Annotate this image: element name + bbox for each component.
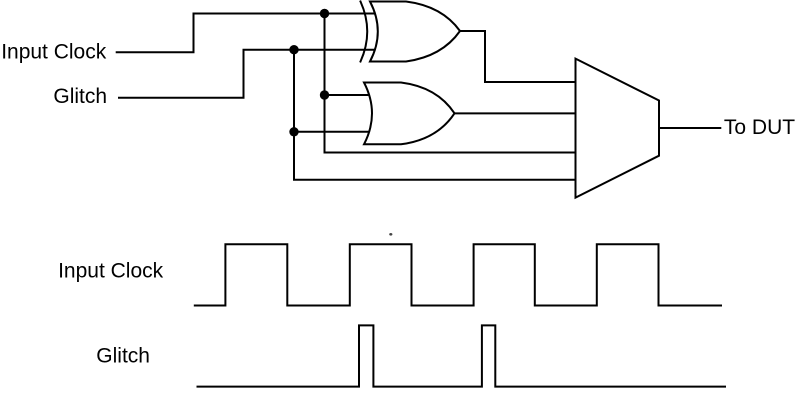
svg-text:Input Clock: Input Clock [58,260,164,283]
svg-text:To DUT: To DUT [724,116,795,139]
svg-text:Glitch: Glitch [53,85,107,108]
svg-text:Glitch: Glitch [96,345,150,368]
svg-text:Input Clock: Input Clock [1,40,107,63]
